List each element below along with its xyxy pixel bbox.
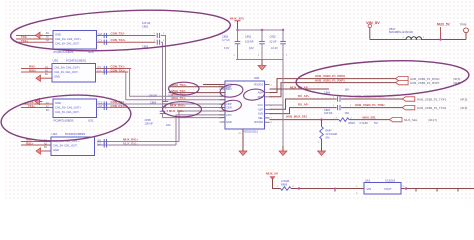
svg-text:C805: C805: [145, 118, 152, 122]
wire C807 to TXN1: [341, 107, 402, 109]
common-mode filter U29: [53, 31, 97, 50]
wire RX2 pair into U30: [21, 68, 52, 70]
wire U30 gnd stub: [44, 77, 53, 79]
junction out rail ticks: [415, 189, 417, 192]
svg-text:MUX_TX1-: MUX_TX1-: [172, 96, 186, 100]
svg-text:MUX_SEL: MUX_SEL: [363, 115, 377, 119]
svg-text:VCC: VCC: [258, 103, 264, 107]
wire R806 to U61: [291, 188, 364, 190]
wire U30 to mux rows: [130, 69, 225, 97]
svg-text:GND: GND: [53, 148, 59, 152]
mux U81 left pins: [221, 84, 226, 86]
svg-text:16V: 16V: [166, 123, 171, 127]
common-mode filter U32: [51, 137, 95, 156]
capacitor C2 on TX2-: [104, 40, 106, 45]
svg-text:TX1+: TX1+: [28, 104, 35, 108]
capacitor on CON_TX1+: [104, 69, 106, 74]
svg-text:CTN: CTN: [226, 113, 231, 117]
svg-text:CH1_IN+ CH1_OUT+: CH1_IN+ CH1_OUT+: [55, 106, 81, 110]
svg-text:MUX_RX1-: MUX_RX1-: [123, 141, 138, 145]
svg-text:R647: R647: [326, 129, 333, 133]
svg-text:PCMF2USB3S: PCMF2USB3S: [66, 59, 86, 63]
wire C803 to mux bundle: [161, 42, 163, 111]
svg-text:100 NF: 100 NF: [149, 94, 158, 98]
capacitor C803: [157, 40, 159, 45]
svg-text:GND: GND: [55, 101, 61, 105]
svg-text:10 KOHM: 10 KOHM: [326, 132, 337, 136]
capacitor C806: [338, 96, 340, 101]
svg-text:BLM18PG121SN1D: BLM18PG121SN1D: [389, 30, 413, 34]
svg-text:CH1_IN- CH1_OUT-: CH1_IN- CH1_OUT-: [55, 41, 80, 45]
svg-text:U30: U30: [53, 59, 59, 63]
svg-text:2 MUX_RX1+: 2 MUX_RX1+: [167, 109, 185, 113]
ground arrow U81: [242, 146, 244, 151]
svg-text:R804: R804: [349, 121, 356, 125]
svg-text:RSVD1: RSVD1: [254, 83, 263, 87]
ground wire VCC rail down: [282, 105, 284, 146]
wire MUX_3V3 feed: [237, 21, 239, 30]
svg-text:HUB_USB3_P1_RXP1: HUB_USB3_P1_RXP1: [315, 79, 345, 83]
svg-text:RX_AP+: RX_AP+: [298, 94, 310, 98]
junction MUX_3V3 rail: [236, 29, 238, 31]
svg-text:100 NF: 100 NF: [324, 111, 333, 115]
svg-text:CH1_IN+ CH1_OUT+: CH1_IN+ CH1_OUT+: [54, 66, 80, 70]
capacitor on CON_TX1-: [104, 66, 106, 71]
wire C806 to TXP1: [341, 98, 402, 100]
svg-text:10.3V: 10.3V: [271, 46, 278, 50]
svg-text:(4F,5): (4F,5): [460, 97, 467, 101]
svg-text:HUB_MUX_SEL: HUB_MUX_SEL: [286, 115, 308, 119]
capacitor on MUX_RX1+: [104, 139, 106, 144]
offpage connector TXN1: [402, 105, 415, 109]
capacitor on CON_RX1+: [104, 105, 106, 110]
power arrow at U30: [36, 75, 41, 81]
svg-text:HUB_USB3_P1_TXP1: HUB_USB3_P1_TXP1: [417, 97, 447, 101]
wire VIN_5V down: [369, 28, 371, 40]
resistor R647: [321, 120, 323, 127]
svg-text:16V: 16V: [345, 111, 350, 115]
wire U30 outputs: [96, 68, 132, 70]
wire stub row 84.5: [203, 84, 225, 86]
power arrow at U32: [36, 148, 41, 154]
svg-text:C851: C851: [245, 34, 252, 38]
junction U61 out: [405, 187, 407, 189]
svg-text:TX2+: TX2+: [21, 39, 28, 43]
svg-text:BDN: BDN: [226, 87, 232, 91]
wire 5V rail: [370, 39, 466, 41]
svg-text:C850: C850: [222, 34, 229, 38]
svg-text:MUX_SEL: MUX_SEL: [404, 118, 418, 122]
capacitor on CON_RX1-: [104, 101, 106, 106]
svg-text:CON_TX1+: CON_TX1+: [111, 68, 126, 72]
svg-text:CON_TX2-: CON_TX2-: [111, 32, 125, 36]
wire A1P to C806: [270, 99, 337, 109]
wire MUX_RX_AP: [270, 88, 330, 90]
svg-text:GND: GND: [54, 74, 60, 78]
offpage connector RXN1: [396, 76, 409, 80]
svg-text:C852: C852: [270, 34, 277, 38]
highlight ellipse MUX_TX: [169, 82, 199, 95]
highlight ellipse MUX_RX: [163, 102, 202, 117]
svg-text:HUB_USB3_P1_RXP1: HUB_USB3_P1_RXP1: [410, 81, 440, 85]
offpage connector RXP1: [396, 80, 409, 84]
svg-text:100 NF: 100 NF: [245, 40, 254, 44]
capacitor on MUX_RX1-: [104, 142, 106, 147]
junction rail C851: [261, 29, 263, 31]
svg-text:GND: GND: [55, 33, 61, 37]
svg-text:4.7 UF: 4.7 UF: [222, 38, 230, 42]
svg-text:HD3SS3212: HD3SS3212: [243, 130, 258, 134]
svg-text:C804: C804: [150, 100, 157, 104]
svg-text:6.3V: 6.3V: [224, 46, 230, 50]
svg-text:CON_TX2+: CON_TX2+: [111, 38, 126, 42]
wire R804 to MUX_SEL port: [349, 119, 390, 121]
svg-text:PCMF2USB3S: PCMF2USB3S: [65, 132, 85, 136]
wire ADP to RXN1: [270, 79, 396, 93]
highlight ellipse hub rx: [295, 57, 469, 100]
wire U29 outputs: [97, 35, 156, 37]
svg-text:0 OHM: 0 OHM: [360, 121, 368, 125]
svg-text:U61: U61: [365, 178, 371, 182]
svg-text:A1P: A1P: [258, 107, 263, 111]
regulator U61 body: [364, 183, 401, 195]
wire C802 to mux bundle: [161, 36, 166, 102]
wire SEL: [270, 119, 340, 121]
svg-text:RX2+: RX2+: [29, 68, 37, 72]
wire A1N to C807: [270, 108, 337, 114]
svg-text:100 NF: 100 NF: [142, 21, 151, 25]
common-mode filter U31: [53, 99, 97, 118]
svg-text:MUX_3V3: MUX_3V3: [230, 17, 244, 21]
wire U61 out rail: [401, 188, 474, 190]
svg-text:CDP: CDP: [226, 102, 232, 106]
wire VCC to rail: [270, 104, 284, 106]
wire ADN to RXP1: [270, 83, 396, 97]
svg-text:RX1+: RX1+: [26, 141, 34, 145]
capacitor C850: [237, 30, 239, 41]
svg-text:C802: C802: [142, 24, 149, 28]
ground arrow under cap bank: [261, 60, 263, 66]
ground arrow mid: [282, 146, 284, 151]
wire TX1 pair into U31: [21, 103, 53, 105]
junction bottom rail b: [334, 189, 336, 192]
resistor R806 0 OHM: [281, 187, 292, 191]
resistor R804 0 OHM: [339, 118, 349, 122]
capacitor C851: [261, 30, 263, 41]
svg-text:CH1_IN- CH1_OUT-: CH1_IN- CH1_OUT-: [53, 144, 78, 148]
svg-text:PCMF2USB3S: PCMF2USB3S: [54, 119, 74, 123]
common-mode filter U30: [52, 64, 96, 83]
svg-text:(4F,5): (4F,5): [453, 77, 460, 81]
svg-text:VIN: VIN: [367, 187, 372, 191]
svg-text:22 UF: 22 UF: [270, 40, 277, 44]
svg-text:TP88: TP88: [460, 23, 467, 27]
svg-text:HUB_USB3_P1_RXN1: HUB_USB3_P1_RXN1: [410, 77, 440, 81]
wire CON TX2 pair into U29: [16, 35, 53, 37]
mux U81 body: [225, 81, 265, 129]
svg-text:HUB_USB3_P1_TXN1: HUB_USB3_P1_TXN1: [355, 103, 385, 107]
svg-text:XC6219: XC6219: [385, 178, 396, 182]
wire MUX_5V down to R806: [273, 179, 281, 189]
svg-text:MUX_RX2+: MUX_RX2+: [170, 104, 186, 108]
svg-text:SEL: SEL: [258, 116, 263, 120]
svg-text:CH1_IN- CH1_OUT-: CH1_IN- CH1_OUT-: [54, 70, 79, 74]
highlight ellipse left: [0, 91, 132, 145]
connector pin VIN_5V: [368, 24, 371, 27]
wire MUX_TX2- row: [169, 92, 226, 94]
power arrow at U29: [36, 32, 41, 38]
svg-text:RSVD2: RSVD2: [254, 120, 263, 124]
svg-text:U32: U32: [52, 132, 58, 136]
svg-text:R806: R806: [281, 182, 288, 186]
svg-text:VIN_5V: VIN_5V: [366, 20, 380, 25]
svg-text:MUX_5V: MUX_5V: [266, 171, 278, 175]
wire U31 outputs: [97, 103, 226, 105]
test point TP88 circle: [464, 28, 469, 33]
highlight ellipse U81 CDP/CDN: [221, 99, 242, 112]
svg-text:16V: 16V: [249, 46, 254, 50]
wire U32 outputs: [97, 141, 179, 143]
svg-text:CH1_IN- CH1_OUT-: CH1_IN- CH1_OUT-: [55, 110, 80, 114]
svg-text:HUB_USB3_P1_RXN1: HUB_USB3_P1_RXN1: [315, 74, 345, 78]
svg-text:MUX_5V: MUX_5V: [437, 23, 451, 27]
svg-text:100 NF: 100 NF: [145, 122, 154, 126]
svg-text:0 OHM: 0 OHM: [281, 179, 289, 183]
power arrow MUX_5V: [270, 176, 276, 180]
wire MUX_TX2+ row: [169, 86, 226, 88]
svg-text:HUB_USB3_P1_TXN1: HUB_USB3_P1_TXN1: [417, 106, 447, 110]
capacitor C1 on TX2+: [104, 33, 106, 38]
offpage connector TXP1: [402, 97, 415, 101]
svg-text:(4F,5): (4F,5): [460, 106, 467, 110]
svg-text:U31: U31: [88, 119, 94, 123]
wire gnd rail under caps: [236, 59, 283, 61]
svg-text:GND: GND: [226, 120, 232, 124]
junction bottom rail a: [298, 187, 300, 189]
svg-text:VOUT: VOUT: [384, 187, 392, 191]
ground wire from U81: [242, 129, 244, 146]
highlight ellipse U81 BDP/BDN: [219, 83, 244, 98]
capacitor C807: [338, 105, 340, 110]
wire MUX_5V tap: [440, 27, 442, 40]
wire 3V3 top rail: [238, 29, 284, 31]
mux U81 right pins: [265, 84, 270, 86]
svg-text:U81: U81: [254, 76, 260, 80]
junction SEL R647: [320, 118, 322, 120]
wire RX1 pair into U32: [21, 141, 51, 143]
power arrow at U31: [35, 98, 40, 104]
wire MUX_RX1 risers: [179, 111, 225, 142]
highlight ellipse top-left: [10, 5, 232, 55]
offpage connector MUX_SEL: [390, 117, 403, 121]
capacitor C852: [282, 30, 284, 41]
ground arrow R647: [321, 146, 323, 151]
svg-text:(4F,17): (4F,17): [428, 118, 437, 122]
svg-text:16V: 16V: [345, 87, 350, 91]
svg-text:CDN: CDN: [226, 106, 232, 110]
junction rail C852: [282, 29, 284, 31]
svg-text:A1N: A1N: [258, 112, 263, 116]
highlight ellipse U81 ADP/ADN: [243, 88, 265, 102]
svg-text:CH1_IN+ CH1_OUT+: CH1_IN+ CH1_OUT+: [55, 37, 81, 41]
ferrite bead FB17: [406, 37, 422, 40]
svg-text:RX_AP-: RX_AP-: [298, 103, 309, 107]
svg-text:C807: C807: [324, 108, 331, 112]
capacitor C802: [157, 33, 159, 38]
wire U32 gnd stub: [44, 150, 52, 152]
